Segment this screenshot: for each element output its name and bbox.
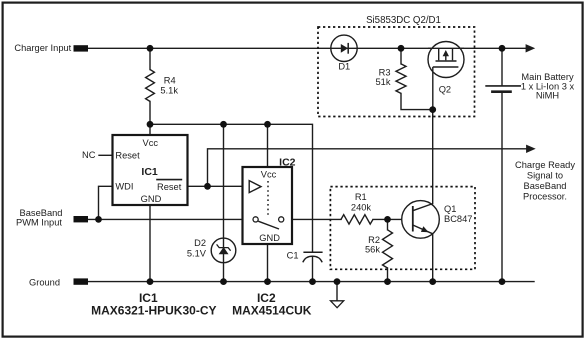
svg-text:Reset: Reset — [115, 150, 140, 160]
wire: R1 right lead to Q1 base — [373, 218, 413, 220]
wire: R2 top lead — [387, 219, 389, 229]
svg-text:51k: 51k — [376, 77, 391, 87]
resistor R4 — [146, 70, 155, 102]
node: ground / ground symbol — [334, 278, 341, 285]
wire: R2 bottom lead — [387, 268, 389, 282]
node: top rail / battery — [499, 45, 506, 52]
node: top rail / R4 — [147, 45, 154, 52]
svg-text:IC1: IC1 — [141, 166, 158, 178]
capacitor C1 — [303, 251, 322, 253]
wire: ground rail — [88, 281, 534, 283]
wire: battery branch lower — [501, 93, 503, 282]
wire: IC1 reset-bar output to IC2 buffer — [188, 185, 250, 187]
wire: R3 bottom lead to Q2 gate node — [401, 93, 433, 109]
svg-text:R4: R4 — [164, 76, 176, 86]
IC1 box — [113, 135, 188, 205]
svg-text:Vcc: Vcc — [143, 138, 159, 148]
svg-text:R2: R2 — [368, 235, 380, 245]
svg-text:Processor.: Processor. — [523, 191, 567, 201]
transistor Q1 — [402, 201, 440, 239]
terminal: baseband pwm input — [74, 216, 89, 222]
zener diode D2 — [211, 238, 236, 263]
svg-text:D2: D2 — [194, 238, 206, 248]
wire: charge-ready horizontal y=148.8 — [208, 149, 527, 187]
svg-text:MAX4514CUK: MAX4514CUK — [232, 304, 312, 318]
node: ground / Q1 emitter — [429, 278, 436, 285]
wire: C1 lower lead — [312, 256, 314, 281]
svg-text:MAX6321-HPUK30-CY: MAX6321-HPUK30-CY — [91, 304, 216, 318]
wire: Q1 emitter down to ground — [432, 234, 434, 282]
wire: WDI pin loop to PWM line — [99, 186, 113, 219]
svg-text:Signal to: Signal to — [527, 171, 563, 181]
node: R1/R2/Q1 base — [384, 216, 391, 223]
IC2 switch lever — [258, 221, 279, 229]
node: Vcc rail / D2 — [220, 121, 227, 128]
svg-text:GND: GND — [259, 233, 280, 243]
svg-text:BC847: BC847 — [444, 214, 472, 224]
wire: NC to IC1 reset pin — [99, 154, 113, 156]
node: PWM / WDI — [95, 216, 102, 223]
node: top rail / R3 — [398, 45, 405, 52]
wire: battery branch upper — [501, 48, 503, 85]
resistor R2 — [383, 230, 393, 268]
node: ground / R2 — [384, 278, 391, 285]
node: ground / battery — [499, 278, 506, 285]
wire: Q2 gate node down to Q1 collector — [432, 110, 434, 204]
wire: IC2 switch output to R1 — [284, 218, 341, 220]
battery — [485, 85, 521, 87]
svg-text:D1: D1 — [338, 62, 350, 72]
svg-text:NiMH: NiMH — [536, 91, 559, 101]
node: ground / C1 — [309, 278, 316, 285]
terminal: ground — [74, 278, 89, 284]
svg-text:WDI: WDI — [115, 182, 133, 192]
svg-text:BaseBand: BaseBand — [524, 181, 567, 191]
terminal: charger input — [74, 45, 89, 51]
wire: charger input top rail y=48.3 — [88, 47, 526, 49]
svg-text:PWM Input: PWM Input — [16, 218, 62, 228]
svg-text:Charge Ready: Charge Ready — [515, 160, 575, 170]
dashed box Si5853DC — [318, 27, 475, 117]
IC2 buffer triangle — [249, 181, 261, 193]
wire: R4 top lead — [149, 48, 151, 69]
svg-text:56k: 56k — [365, 245, 380, 255]
svg-text:240k: 240k — [351, 202, 372, 212]
svg-text:IC2: IC2 — [279, 156, 296, 168]
svg-text:5.1V: 5.1V — [187, 248, 207, 258]
wire: IC2 GND stub — [267, 244, 269, 282]
svg-text:Q2: Q2 — [439, 85, 451, 95]
wire: R3 top lead — [400, 48, 402, 64]
node: ground / D2 — [220, 278, 227, 285]
arrow: main battery output — [526, 44, 536, 52]
node: R3 / Q2 gate — [429, 106, 436, 113]
svg-text:Charger Input: Charger Input — [14, 43, 71, 53]
resistor R1 — [341, 215, 373, 224]
wire: IC2 Vcc branch — [267, 124, 269, 167]
node: ground / IC1 — [147, 278, 154, 285]
diode D1 — [331, 35, 357, 61]
svg-text:Q1: Q1 — [444, 204, 456, 214]
svg-text:R1: R1 — [355, 192, 367, 202]
wire: D2 branch — [223, 124, 225, 281]
node: ground / IC2 — [264, 278, 271, 285]
ground symbol — [331, 301, 344, 308]
IC2 switch contacts — [253, 217, 258, 222]
wire: IC1 GND stub — [149, 205, 151, 282]
node: reset-bar output — [204, 183, 211, 190]
MOSFET Q2 — [428, 42, 464, 78]
dashed box Q1/R1/R2 — [330, 187, 475, 270]
svg-text:R3: R3 — [379, 68, 391, 78]
svg-text:NC: NC — [82, 150, 96, 160]
IC2 box — [243, 167, 293, 244]
resistor R3 — [396, 64, 406, 94]
wire: Vcc rail y=124.3 with corner down to C1 — [150, 101, 313, 252]
svg-text:Ground: Ground — [29, 277, 60, 287]
svg-text:Si5853DC Q2/D1: Si5853DC Q2/D1 — [366, 15, 441, 26]
node: Vcc rail / R4 — [147, 121, 154, 128]
svg-text:5.1k: 5.1k — [160, 86, 178, 96]
node: Vcc rail / IC2 Vcc — [264, 121, 271, 128]
svg-text:C1: C1 — [287, 251, 299, 261]
svg-text:Vcc: Vcc — [261, 170, 277, 180]
svg-text:BaseBand: BaseBand — [20, 208, 63, 218]
svg-text:Reset: Reset — [157, 182, 182, 192]
arrow: charge ready output — [526, 145, 536, 153]
svg-text:GND: GND — [141, 194, 162, 204]
wire: ground symbol stub — [336, 282, 338, 301]
IC2 dotted control line — [267, 181, 269, 216]
wire: IC1 Vcc stub — [149, 124, 151, 135]
wire: baseband PWM line — [88, 218, 253, 220]
